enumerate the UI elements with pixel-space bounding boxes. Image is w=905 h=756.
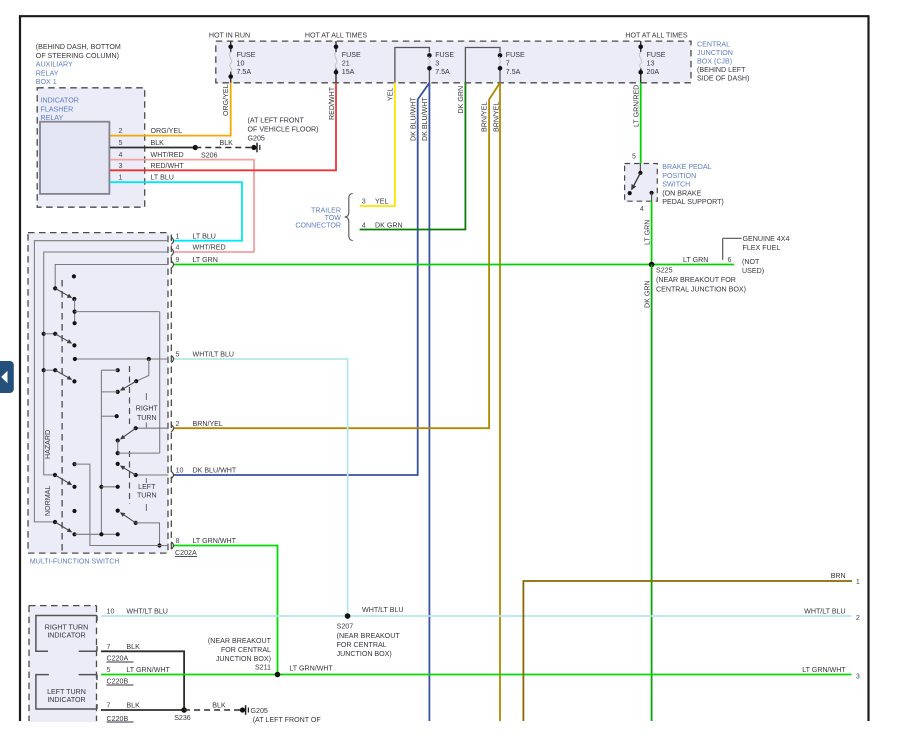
- splice S206: [193, 145, 198, 150]
- svg-text:LT GRN/WHT: LT GRN/WHT: [802, 666, 846, 674]
- svg-text:YEL: YEL: [386, 88, 394, 101]
- svg-text:BRN/YEL: BRN/YEL: [481, 102, 489, 132]
- svg-text:21: 21: [342, 60, 350, 68]
- label (AT LEFT FRONT OF VEHICLE FLOOR) G205: [248, 117, 319, 143]
- wire LT GRN brake switch pin 4 to S225: [651, 201, 653, 264]
- nav tab (left edge): [0, 361, 14, 393]
- left turn indicator body: [36, 675, 97, 709]
- svg-text:INDICATOR: INDICATOR: [41, 97, 79, 105]
- MFS pin5 row: [73, 357, 169, 361]
- svg-text:OF STEERING COLUMN): OF STEERING COLUMN): [36, 52, 119, 60]
- wire BRN corner to right edge: [523, 581, 852, 721]
- svg-text:1: 1: [176, 232, 180, 240]
- svg-text:JUNCTION BOX): JUNCTION BOX): [337, 650, 392, 658]
- svg-text:(AT LEFT FRONT OF: (AT LEFT FRONT OF: [253, 716, 322, 724]
- splice S211: [275, 672, 281, 678]
- indicator flasher relay body: [40, 122, 109, 194]
- svg-text:FLASHER: FLASHER: [41, 106, 74, 114]
- svg-text:LT GRN/WHT: LT GRN/WHT: [126, 666, 170, 674]
- MFS dashed bracket left turn: [129, 451, 131, 504]
- MFS pin 8 connector: [171, 537, 236, 549]
- label S225 (NEAR BREAKOUT FOR CENTRAL JUNCTION BOX): [656, 266, 746, 293]
- border frame top: [19, 15, 870, 17]
- contact stub row: [101, 414, 118, 418]
- svg-text:(NOT: (NOT: [742, 258, 760, 266]
- splice S236: [181, 707, 187, 713]
- svg-text:7.5A: 7.5A: [237, 68, 252, 76]
- wire LT GRN/RED fuse 13 to brake pedal switch pin 5: [640, 83, 642, 164]
- svg-text:G205: G205: [251, 707, 268, 715]
- svg-text:G205: G205: [248, 135, 265, 143]
- switch arm left turn: [121, 513, 138, 525]
- svg-text:(ON BRAKE: (ON BRAKE: [662, 190, 701, 198]
- switch arm hazard row2: [42, 368, 77, 383]
- switch arm hazard row1: [42, 332, 77, 348]
- svg-text:5: 5: [107, 666, 111, 674]
- right turn feed: [136, 359, 149, 381]
- svg-text:HOT AT ALL TIMES: HOT AT ALL TIMES: [305, 31, 368, 39]
- MFS bus from pin 1: [34, 241, 168, 522]
- svg-text:9: 9: [176, 256, 180, 264]
- right/left turn indicator outer dashed box: [29, 606, 97, 722]
- svg-text:ORG/YEL: ORG/YEL: [151, 127, 183, 135]
- svg-text:WHT/LT BLU: WHT/LT BLU: [193, 351, 235, 359]
- pin8 feed: [72, 462, 168, 546]
- svg-text:4: 4: [640, 205, 644, 213]
- MFS pin 9 connector: [171, 256, 218, 268]
- svg-text:RIGHT: RIGHT: [136, 405, 159, 413]
- svg-text:DK BLU/WHT: DK BLU/WHT: [409, 97, 417, 141]
- svg-text:C202A: C202A: [175, 549, 197, 557]
- fuse 13 20A: [638, 41, 665, 83]
- svg-text:2: 2: [856, 614, 860, 622]
- svg-text:MULTI-FUNCTION SWITCH: MULTI-FUNCTION SWITCH: [30, 558, 120, 566]
- fuse 10 7.5A: [228, 41, 255, 83]
- svg-text:BRN/YEL: BRN/YEL: [492, 102, 500, 132]
- svg-text:8: 8: [176, 537, 180, 545]
- label C220B: [107, 677, 134, 685]
- svg-text:HAZARD: HAZARD: [44, 430, 52, 459]
- svg-text:RELAY: RELAY: [36, 70, 59, 78]
- svg-text:WHT/LT BLU: WHT/LT BLU: [126, 608, 168, 616]
- svg-text:LT GRN: LT GRN: [643, 220, 651, 245]
- svg-text:BOX 1: BOX 1: [36, 78, 57, 86]
- wire BLK dashed S236 to G205: [184, 709, 240, 711]
- central junction box (CJB) dashed box: [216, 41, 691, 83]
- wire LT GRN/WHT left turn indicator pin 5 to right edge: [101, 674, 852, 676]
- svg-text:20A: 20A: [647, 68, 660, 76]
- ground G205: [251, 143, 260, 153]
- svg-text:7: 7: [107, 643, 111, 651]
- svg-text:S207: S207: [337, 623, 354, 631]
- svg-text:7.5A: 7.5A: [435, 68, 450, 76]
- svg-text:10: 10: [237, 60, 245, 68]
- contact stub row: [99, 485, 119, 489]
- connector stub: [101, 391, 117, 393]
- label S207 (NEAR BREAKOUT FOR CENTRAL JUNCTION BOX): [337, 623, 401, 659]
- multi-function switch dashed box: [28, 233, 168, 553]
- fuse 21 15A: [334, 41, 361, 83]
- svg-text:7.5A: 7.5A: [506, 68, 521, 76]
- svg-text:(BEHIND LEFT: (BEHIND LEFT: [697, 66, 746, 74]
- svg-text:C220A: C220A: [107, 654, 129, 662]
- svg-text:10: 10: [176, 467, 184, 475]
- bracket to GENUINE 4X4 FLEX FUEL: [723, 237, 742, 239]
- svg-text:RED/WHT: RED/WHT: [328, 86, 336, 120]
- switch arm normal: [53, 520, 77, 537]
- wire BRN/YEL fuse 7 to MFS pin 2: [174, 83, 500, 428]
- svg-text:FOR CENTRAL: FOR CENTRAL: [221, 646, 271, 654]
- svg-text:FLEX FUEL: FLEX FUEL: [743, 244, 781, 252]
- switch arm right turn mid: [116, 379, 139, 394]
- MFS dashed bracket right turn: [129, 366, 131, 424]
- wire BLK left turn indicator pin 7 to S236: [101, 709, 184, 711]
- svg-text:5: 5: [632, 153, 636, 161]
- wire RED/WHT from fuse 21 to relay pin 3: [110, 83, 336, 171]
- label (BEHIND DASH...) AUXILIARY RELAY BOX 1: [36, 43, 121, 86]
- wire LT GRN MFS pin 9 to CJB pin 6: [174, 264, 734, 266]
- svg-text:7: 7: [107, 702, 111, 710]
- svg-text:BOX (CJB): BOX (CJB): [697, 58, 732, 66]
- svg-text:2: 2: [176, 420, 180, 428]
- svg-text:LT GRN: LT GRN: [193, 256, 218, 264]
- svg-text:3: 3: [435, 60, 439, 68]
- wire DK BLU/WHT fuse 3 to MFS pin 10: [174, 83, 429, 475]
- label C220A: [107, 654, 134, 662]
- wire BRN/YEL fuse 7 straight down: [499, 83, 501, 721]
- wire WHT/LT BLU right turn indicator pin 10 to right edge: [101, 615, 852, 617]
- svg-text:DK BLU/WHT: DK BLU/WHT: [421, 97, 429, 141]
- svg-text:3: 3: [856, 672, 860, 680]
- wire WHT/RED relay pin 4 to MFS pin 4: [110, 160, 254, 252]
- border frame right: [867, 16, 869, 722]
- svg-text:RIGHT TURN: RIGHT TURN: [45, 624, 88, 632]
- svg-text:WHT/RED: WHT/RED: [193, 244, 226, 252]
- svg-text:LT GRN: LT GRN: [683, 256, 708, 264]
- svg-text:BLK: BLK: [151, 139, 165, 147]
- wire DK GRN fuse 7 to trailer tow pin 4: [360, 83, 466, 230]
- wire BLK dashed S206 to G205: [195, 147, 252, 149]
- svg-text:LEFT TURN: LEFT TURN: [47, 688, 86, 696]
- svg-text:BRAKE PEDAL: BRAKE PEDAL: [662, 163, 711, 171]
- svg-text:BRN: BRN: [831, 572, 846, 580]
- svg-text:S236: S236: [174, 714, 191, 722]
- svg-text:DK GRN: DK GRN: [643, 280, 651, 308]
- tick marks: [145, 393, 147, 511]
- svg-text:YEL: YEL: [375, 197, 388, 205]
- wire DK GRN S225 down: [651, 265, 653, 722]
- svg-text:HOT AT ALL TIMES: HOT AT ALL TIMES: [625, 31, 688, 39]
- svg-text:LT GRN/WHT: LT GRN/WHT: [289, 665, 333, 673]
- left turn feed: [136, 523, 160, 546]
- svg-text:4: 4: [119, 151, 123, 159]
- wire to pin 5 feed: [75, 311, 160, 313]
- fuse 7 7.5A with feed loop: [465, 48, 525, 83]
- wire LT GRN/WHT MFS pin 8 to S211: [174, 546, 278, 675]
- MFS connector dashed line C202A: [170, 235, 172, 553]
- svg-text:5: 5: [176, 351, 180, 359]
- svg-text:USED): USED): [742, 267, 764, 275]
- svg-text:LT BLU: LT BLU: [151, 174, 174, 182]
- svg-text:CENTRAL: CENTRAL: [697, 41, 730, 49]
- right turn indicator body: [36, 616, 97, 652]
- svg-text:INDICATOR: INDICATOR: [47, 696, 85, 704]
- MFS bus from pin 9: [55, 265, 168, 289]
- brake pedal switch contacts and blade: [628, 164, 654, 202]
- svg-text:DK BLU/WHT: DK BLU/WHT: [193, 467, 237, 475]
- contact column segment: [73, 299, 77, 325]
- svg-text:FUSE: FUSE: [435, 51, 454, 59]
- svg-text:NORMAL: NORMAL: [44, 486, 52, 516]
- contact dot: [72, 274, 76, 278]
- label RIGHT TURN: [136, 405, 159, 423]
- wire BLK right turn indicator pin 7 to S236: [101, 651, 184, 710]
- svg-text:INDICATOR: INDICATOR: [47, 631, 85, 639]
- contact dot: [116, 509, 120, 513]
- label INDICATOR FLASHER RELAY: [41, 97, 79, 123]
- svg-text:PEDAL SUPPORT): PEDAL SUPPORT): [662, 198, 724, 206]
- splice S225: [649, 262, 655, 268]
- wire LT BLU relay pin 1 to MFS pin 1: [110, 182, 242, 241]
- svg-text:(NEAR BREAKOUT: (NEAR BREAKOUT: [337, 632, 401, 640]
- svg-text:BLK: BLK: [212, 702, 226, 710]
- label LEFT TURN INDICATOR: [47, 688, 86, 704]
- svg-text:CONNECTOR: CONNECTOR: [295, 222, 341, 230]
- svg-text:S206: S206: [201, 152, 218, 160]
- svg-text:FOR CENTRAL: FOR CENTRAL: [337, 641, 387, 649]
- MFS pin 10 connector: [171, 467, 237, 479]
- svg-text:SWITCH: SWITCH: [662, 180, 690, 188]
- MFS pin 2 connector: [171, 420, 223, 432]
- contact dot: [72, 509, 76, 513]
- wire YEL fuse 3 to trailer tow pin 3: [360, 83, 395, 206]
- svg-text:1: 1: [856, 578, 860, 586]
- auxiliary relay box 1 dashed box: [37, 88, 145, 207]
- contact column segment: [116, 441, 160, 456]
- label GENUINE 4X4 FLEX FUEL: [743, 235, 790, 252]
- svg-text:OF VEHICLE FLOOR): OF VEHICLE FLOOR): [248, 126, 319, 134]
- svg-text:S225: S225: [656, 266, 673, 274]
- trailer tow connector brace: [345, 194, 353, 241]
- svg-text:C220B: C220B: [107, 677, 129, 685]
- vertical feed line: [159, 312, 161, 454]
- svg-text:BLK: BLK: [126, 702, 140, 710]
- svg-text:3: 3: [119, 162, 123, 170]
- svg-text:FUSE: FUSE: [506, 51, 525, 59]
- wire BLK from relay pin 5 to S206: [110, 147, 195, 149]
- pin 6 tick: [722, 238, 724, 259]
- svg-text:WHT/RED: WHT/RED: [151, 151, 184, 159]
- svg-text:WHT/LT BLU: WHT/LT BLU: [362, 606, 404, 614]
- svg-text:1: 1: [119, 174, 123, 182]
- svg-text:WHT/LT BLU: WHT/LT BLU: [804, 607, 846, 615]
- label C220B (bottom): [107, 715, 134, 723]
- svg-text:4: 4: [176, 244, 180, 252]
- svg-text:GENUINE 4X4: GENUINE 4X4: [743, 235, 790, 243]
- wire DK BLU/WHT fuse 3 straight down: [428, 83, 430, 721]
- svg-text:(NEAR BREAKOUT FOR: (NEAR BREAKOUT FOR: [656, 276, 736, 284]
- svg-text:POSITION: POSITION: [662, 172, 696, 180]
- svg-text:FUSE: FUSE: [237, 51, 256, 59]
- ground G205 (bottom): [240, 705, 249, 715]
- junction dot pin8: [157, 543, 161, 547]
- splice S207: [345, 613, 351, 619]
- svg-text:(BEHIND DASH, BOTTOM: (BEHIND DASH, BOTTOM: [36, 43, 121, 51]
- svg-text:15A: 15A: [342, 68, 355, 76]
- svg-text:6: 6: [728, 256, 732, 264]
- wire ORG/YEL from fuse 10 to relay pin 2: [110, 83, 231, 136]
- fuse 3 7.5A with feed loop: [395, 48, 454, 83]
- label C202A: [175, 549, 197, 557]
- svg-text:LEFT: LEFT: [138, 483, 156, 491]
- svg-text:(AT LEFT FRONT: (AT LEFT FRONT: [248, 117, 305, 125]
- label BRAKE PEDAL POSITION SWITCH (ON BRAKE PEDAL SUPPORT): [662, 163, 724, 206]
- label TRAILER TOW CONNECTOR: [295, 206, 341, 229]
- svg-text:5: 5: [119, 139, 123, 147]
- svg-text:FUSE: FUSE: [342, 51, 361, 59]
- svg-text:LT GRN/RED: LT GRN/RED: [632, 85, 640, 127]
- label G205 (AT LEFT FRONT OF: [251, 707, 322, 724]
- label LEFT TURN: [137, 483, 157, 500]
- MFS pin 5 connector: [171, 351, 234, 363]
- svg-text:LT GRN/WHT: LT GRN/WHT: [193, 537, 237, 545]
- svg-text:TURN: TURN: [137, 492, 157, 500]
- brake pedal position switch dashed box: [625, 164, 658, 202]
- svg-text:10: 10: [107, 608, 115, 616]
- switch arm pin9: [53, 286, 76, 301]
- svg-text:HOT IN RUN: HOT IN RUN: [209, 31, 250, 39]
- MFS bus from pin 4: [44, 252, 169, 475]
- svg-text:7: 7: [506, 60, 510, 68]
- bottom contact row: [75, 532, 120, 536]
- svg-text:TURN: TURN: [137, 414, 157, 422]
- svg-text:3: 3: [362, 197, 366, 205]
- svg-text:2: 2: [119, 127, 123, 135]
- svg-text:DK GRN: DK GRN: [375, 221, 403, 229]
- svg-text:S211: S211: [255, 664, 271, 672]
- svg-text:JUNCTION BOX): JUNCTION BOX): [216, 655, 271, 663]
- label (NOT USED): [742, 258, 764, 275]
- border frame left: [19, 16, 21, 722]
- vertical inner bus: [100, 370, 102, 534]
- MFS pin 4 connector: [171, 244, 225, 256]
- label RIGHT TURN INDICATOR: [45, 624, 88, 640]
- label (NEAR BREAKOUT FOR CENTRAL JUNCTION BOX) S211: [208, 637, 272, 672]
- svg-text:AUXILIARY: AUXILIARY: [36, 61, 73, 69]
- svg-text:13: 13: [647, 60, 655, 68]
- MFS pin10 contact and arm: [116, 462, 169, 477]
- svg-text:BLK: BLK: [126, 643, 140, 651]
- svg-text:BRN/YEL: BRN/YEL: [193, 420, 223, 428]
- contact stub row: [101, 368, 119, 372]
- svg-text:ORG/YEL: ORG/YEL: [222, 84, 230, 116]
- MFS pin 1 connector: [171, 232, 216, 244]
- MFS pin2 contact and arm: [116, 426, 169, 443]
- wire WHT/LT BLU MFS pin 5 to S207: [174, 359, 348, 616]
- svg-text:JUNCTION: JUNCTION: [697, 49, 733, 57]
- svg-text:RED/WHT: RED/WHT: [151, 162, 185, 170]
- MFS inner dashed divider: [61, 280, 63, 553]
- svg-text:4: 4: [362, 221, 366, 229]
- svg-text:SIDE OF DASH): SIDE OF DASH): [697, 75, 749, 83]
- svg-text:LT BLU: LT BLU: [193, 232, 216, 240]
- svg-text:(NEAR BREAKOUT: (NEAR BREAKOUT: [208, 637, 272, 645]
- svg-text:FUSE: FUSE: [647, 51, 666, 59]
- switch arm hazard: [53, 473, 77, 489]
- svg-text:CENTRAL JUNCTION BOX): CENTRAL JUNCTION BOX): [656, 285, 746, 293]
- svg-text:DK GRN: DK GRN: [457, 86, 465, 114]
- svg-text:BLK: BLK: [220, 139, 234, 147]
- label CENTRAL JUNCTION BOX (CJB): [697, 41, 749, 83]
